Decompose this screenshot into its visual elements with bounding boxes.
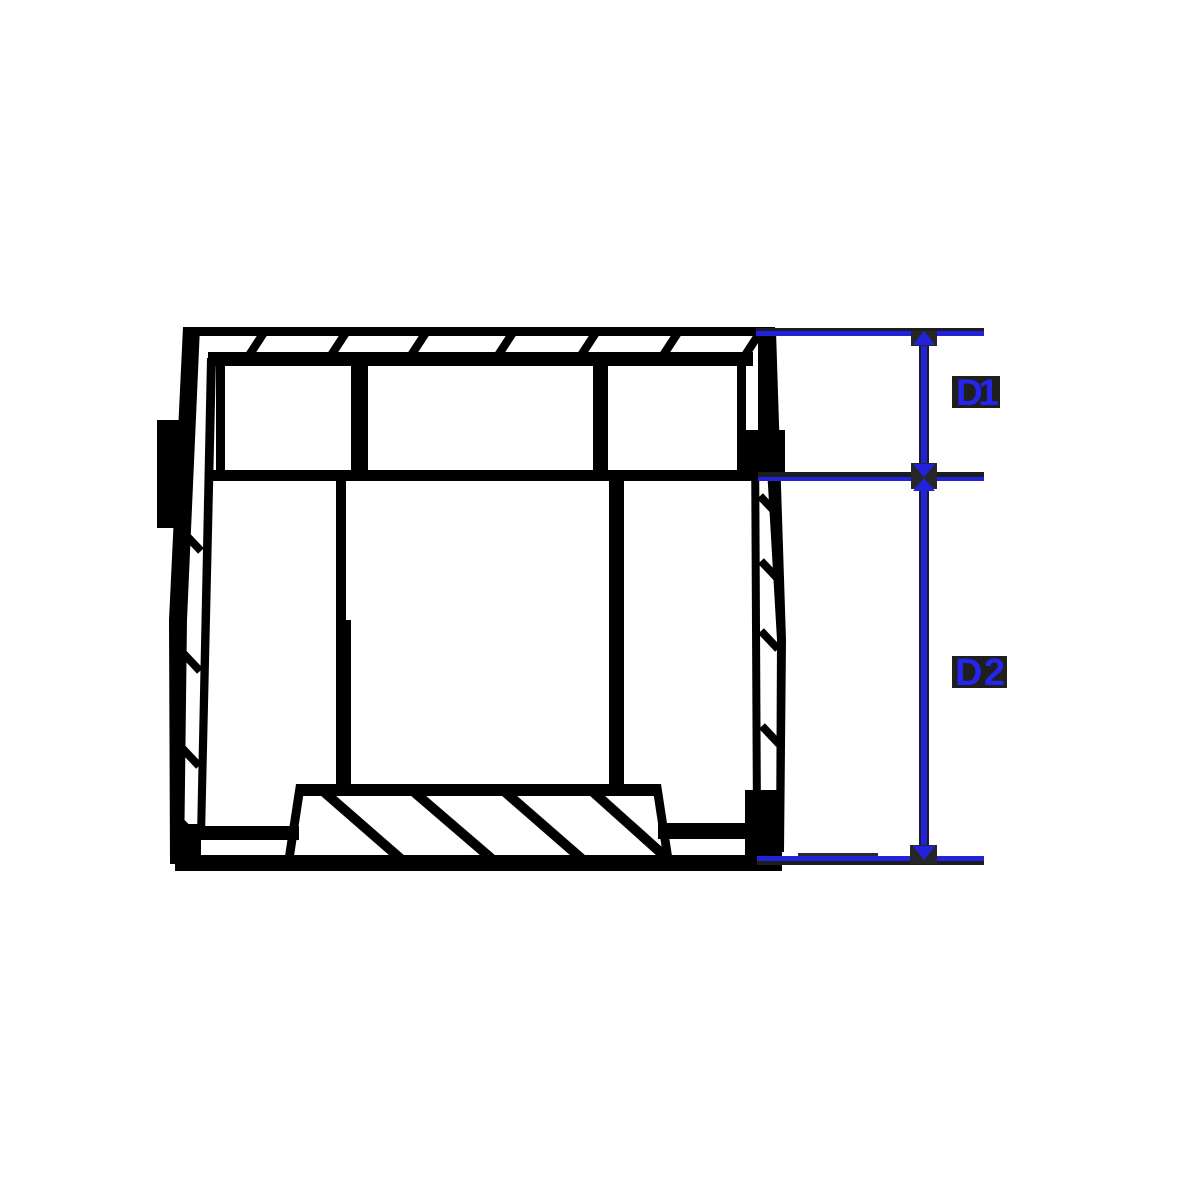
- bottom arrow: [913, 846, 935, 860]
- label D2 box: [952, 656, 1007, 688]
- left wall hatch dash 2: [183, 653, 200, 671]
- dimension extension line middle dark: [758, 472, 984, 477]
- top band hatch dash 7: [739, 334, 764, 357]
- svg-text:D1: D1: [956, 372, 999, 413]
- dimension extension line top blue: [756, 331, 984, 336]
- inner right wall line: [751, 430, 761, 824]
- top arrow box: [911, 331, 937, 346]
- ridge left edge: [285, 784, 305, 856]
- thread row bottom line: [208, 470, 758, 481]
- thread row separator 1: [351, 362, 368, 478]
- bottom left corner blob: [175, 824, 201, 864]
- ridge hatch stripe 4: [589, 795, 672, 856]
- right junction blob: [737, 430, 785, 481]
- middle arrow down: [913, 464, 935, 477]
- ridge hatch stripe 1: [320, 795, 405, 856]
- right floor line: [658, 823, 754, 839]
- vertical dimension line dark edges: [919, 331, 929, 859]
- bottom right corner mass: [745, 790, 782, 856]
- ridge top line: [296, 784, 661, 796]
- ridge right edge: [652, 784, 672, 856]
- label D1 box: [952, 376, 1000, 408]
- left floor line: [200, 826, 299, 840]
- left wall hatch dash 3: [182, 748, 199, 766]
- outer right wall top column: [758, 331, 776, 435]
- middle arrow up: [913, 478, 935, 491]
- right wall hatch dash 4: [762, 726, 779, 744]
- lower cavity vertical V1 thick part: [345, 620, 351, 795]
- top band hatch dash 6: [657, 334, 682, 357]
- lower cavity vertical V2: [609, 478, 624, 795]
- dimension extension line top dark: [756, 328, 984, 331]
- top band hatch dash 2: [325, 334, 350, 357]
- inner left wall line: [197, 358, 216, 836]
- outer right wall line: [759, 331, 786, 852]
- left wall hatch dash 1: [184, 533, 201, 551]
- outer top line: [183, 327, 775, 336]
- ridge hatch stripe 3: [501, 795, 586, 856]
- left wall hatch dash 4: [182, 823, 199, 841]
- left bump: [157, 420, 181, 528]
- lower cavity vertical V1: [336, 478, 346, 795]
- dimension extension line bottom dark: [757, 861, 984, 865]
- dimension extension line bottom blue: [757, 856, 984, 861]
- ridge hatch stripe 2: [410, 795, 496, 856]
- top band hatch dash 3: [405, 334, 430, 357]
- top band hatch dash 1: [243, 334, 268, 357]
- vertical dimension line blue core: [921, 331, 927, 859]
- middle arrows box: [911, 463, 937, 489]
- outer bottom line: [175, 855, 782, 871]
- top band hatch dash 5: [575, 334, 600, 357]
- top band hatch dash 4: [492, 334, 517, 357]
- right wall hatch dash 3: [761, 631, 778, 649]
- outer left wall line: [169, 327, 200, 864]
- right wall hatch dash 5: [762, 811, 779, 829]
- bottom arrow box: [910, 845, 937, 864]
- svg-text:D2: D2: [955, 652, 1005, 694]
- top arrow: [913, 331, 935, 345]
- right wall hatch dash 2: [761, 561, 778, 579]
- thread row right edge: [737, 362, 746, 480]
- dimension extension line bottom dark smudge: [798, 853, 878, 857]
- dimension extension line middle blue: [758, 477, 984, 481]
- thread row separator 2: [593, 362, 608, 478]
- inner top line: [208, 352, 753, 366]
- thread row left edge: [216, 358, 225, 478]
- right wall hatch dash 1: [760, 496, 777, 514]
